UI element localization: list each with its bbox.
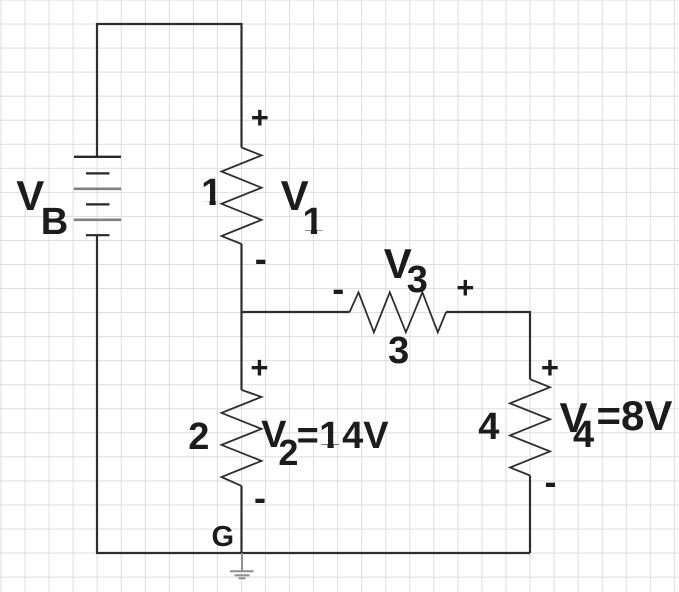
battery VB plate short 2 [86,203,110,205]
wire mid horizontal left segment [242,311,350,313]
label V2 value digit 1 [319,417,340,455]
label R2 reference 2 [188,418,209,456]
wire mid horizontal right segment [446,311,530,313]
label V4 value =8V [597,395,673,437]
battery VB plate short 1 [86,172,110,174]
resistor R3 [350,292,447,332]
label R1 reference 1 [201,174,222,212]
label minus below R4 [545,464,557,500]
wire R2 bottom lead to bottom wire [240,486,242,553]
wire R2 top lead (mid node down) [240,312,242,390]
label V2 subscript 2 [278,435,298,471]
label minus below R2 [254,480,266,516]
label plus above R1 [251,102,269,133]
wire R1 bottom lead to mid node [240,244,242,312]
wire R4 bottom lead to bottom wire [529,476,531,554]
label minus below R1 [255,241,267,277]
label VB letter V [16,175,44,217]
wire left branch upper (top wire to battery top plate) [96,23,98,157]
wire bottom horizontal [96,552,530,554]
label VB subscript B [41,203,68,241]
label ground node G [212,523,235,552]
battery VB plate long 3 [74,219,121,222]
label plus right of R3 [456,272,474,303]
wire left branch lower (battery bottom to bottom wire) [96,235,98,553]
label V2 value =14V [297,417,319,455]
label V1 letter V [281,175,309,217]
label V2 value 4V [342,417,388,455]
ground bar 1 [230,570,254,572]
label V3 letter V [384,243,412,285]
label V4 letter V [560,397,588,439]
wire top horizontal [97,23,242,25]
resistor R1 [222,148,262,245]
label plus above R2 [250,352,268,383]
wire R4 top lead (mid wire down) [529,311,531,379]
label V1 subscript 1 [303,203,324,241]
battery VB plate short 3 [86,234,110,236]
label R3 reference 3 [388,332,409,370]
label V2 letter V [261,416,286,454]
resistor R4 [510,379,550,475]
battery VB plate long 1 [74,156,121,158]
battery VB plate long 2 [74,188,121,191]
label V4 subscript 4 [573,416,594,454]
resistor R2 [222,390,262,486]
label R4 reference 4 [478,408,499,446]
wire R1 top lead [240,23,242,148]
ground stub [241,553,243,571]
label plus above R4 [541,352,559,383]
label V3 subscript 3 [407,261,428,299]
label minus left of R3 [332,271,344,307]
ground bar 2 [235,574,250,576]
ground bar 3 [239,577,246,579]
